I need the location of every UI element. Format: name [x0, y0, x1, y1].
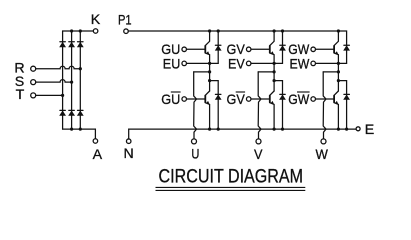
wire U upper diode branch — [217, 31, 219, 63]
diode D2 (rectifier upper) — [69, 42, 75, 47]
node N bus / U lower diode — [217, 128, 220, 131]
wire P bus (top rail) — [128, 31, 346, 63]
terminal GW — [311, 47, 316, 52]
node U midpoint / output branch — [208, 70, 211, 73]
wire V lower diode branch — [274, 81, 282, 130]
svg-text:N: N — [123, 146, 133, 162]
node P bus / U upper diode — [217, 29, 220, 32]
node W midpoint / output branch — [337, 70, 340, 73]
wire T input — [35, 94, 62, 96]
node V midpoint / output branch — [273, 70, 276, 73]
terminal GU — [182, 47, 187, 52]
wire U output drop — [194, 72, 197, 139]
svg-text:EU: EU — [163, 55, 181, 71]
svg-text:GW: GW — [288, 91, 310, 107]
node W midpoint at upper emitter — [337, 62, 340, 65]
terminal A — [93, 139, 98, 144]
transistor Q5 (V lower IGBT) — [251, 91, 274, 129]
diode D3 (rectifier upper) — [77, 42, 83, 47]
diode D11 (V lower freewheel) — [280, 94, 286, 99]
node T / leg1 — [61, 94, 64, 97]
transistor Q3 (W upper IGBT) — [315, 31, 338, 63]
wire W lower diode branch — [338, 81, 346, 130]
terminal GV-bar — [246, 97, 251, 102]
wire cathode rail to K — [63, 30, 94, 32]
wire W midpoint vertical — [337, 63, 339, 91]
svg-text:U: U — [191, 147, 199, 163]
transistor Q1 (U upper IGBT) — [186, 31, 209, 63]
diode D7 (U upper freewheel) — [215, 45, 221, 50]
terminal GW-bar — [311, 97, 316, 102]
diode D5 (rectifier lower) — [69, 110, 75, 115]
terminal U — [192, 139, 197, 144]
wire U midpoint / EU line — [186, 62, 218, 64]
node N bus / U lower emitter — [208, 128, 211, 131]
svg-text:GV: GV — [227, 91, 246, 107]
diode D1 (rectifier upper) — [60, 42, 66, 47]
transistor Q2 (V upper IGBT) — [251, 31, 274, 63]
node V midpoint at upper emitter — [273, 62, 276, 65]
terminal K — [93, 29, 98, 34]
terminal R — [31, 66, 36, 71]
svg-text:K: K — [91, 12, 101, 28]
wire V output drop — [258, 72, 261, 139]
terminal P1 — [124, 29, 129, 34]
wire S input — [35, 80, 71, 83]
wire R input — [35, 66, 80, 69]
node U midpoint / lower diode branch — [208, 79, 211, 82]
node P bus / W upper collector — [337, 29, 340, 32]
node P bus / V upper diode — [281, 29, 284, 32]
wire rectifier leg 2 — [71, 31, 73, 129]
terminal GU-bar — [182, 97, 187, 102]
wire anode rail to A — [63, 129, 96, 139]
terminal T — [31, 93, 36, 98]
terminal V — [256, 139, 261, 144]
wire W midpoint / EW line — [315, 62, 346, 64]
wire N/E bus (bottom rail) — [129, 129, 356, 139]
node cathode rail / leg3 — [79, 29, 82, 32]
wire U lower diode branch — [210, 81, 219, 130]
overline GV-bar — [236, 91, 245, 93]
svg-text:T: T — [16, 87, 25, 103]
svg-text:E: E — [365, 122, 374, 138]
wire U branch to output — [194, 71, 210, 73]
terminal S — [31, 80, 36, 85]
svg-text:EW: EW — [290, 55, 310, 71]
diode D4 (rectifier lower) — [60, 110, 66, 115]
node N bus / V lower diode — [281, 128, 284, 131]
svg-text:CIRCUIT DIAGRAM: CIRCUIT DIAGRAM — [159, 167, 304, 188]
svg-text:GU: GU — [161, 91, 180, 107]
svg-text:EV: EV — [228, 55, 245, 71]
wire V midpoint vertical — [273, 63, 275, 91]
title double underline — [156, 187, 306, 190]
node U midpoint at upper emitter — [208, 62, 211, 65]
node W midpoint / lower diode branch — [337, 79, 340, 82]
wire rectifier leg 1 — [62, 31, 64, 129]
wire V midpoint / EV line — [251, 62, 283, 64]
svg-text:A: A — [93, 147, 103, 163]
overline GW-bar — [297, 91, 310, 93]
terminal EU — [182, 61, 187, 66]
wire U midpoint vertical — [209, 63, 211, 91]
diode D9 (W upper freewheel) — [344, 45, 350, 50]
wire V branch to output — [258, 71, 274, 73]
overline GU-bar — [171, 91, 181, 93]
node V midpoint / lower diode branch — [273, 79, 276, 82]
terminal GV — [246, 47, 251, 52]
diode D8 (V upper freewheel) — [280, 45, 286, 50]
terminal N — [126, 139, 131, 144]
node cathode rail / leg2 — [70, 29, 73, 32]
transistor Q4 (U lower IGBT) — [186, 91, 209, 129]
terminal EW — [311, 61, 316, 66]
node anode rail / leg2 — [70, 128, 73, 131]
node R / leg3 — [79, 67, 82, 70]
transistor Q6 (W lower IGBT) — [315, 91, 338, 129]
node S / leg2 — [70, 81, 73, 84]
node N bus / W lower diode — [345, 128, 348, 131]
svg-text:V: V — [254, 147, 263, 163]
terminal EV — [246, 61, 251, 66]
node P bus / V upper collector — [273, 29, 276, 32]
terminal W — [321, 139, 326, 144]
wire rectifier leg 3 — [79, 31, 81, 129]
wire W output drop — [323, 72, 326, 139]
svg-text:P1: P1 — [118, 13, 132, 29]
svg-text:W: W — [316, 147, 329, 163]
wire V upper diode branch — [282, 31, 284, 63]
node N bus / W lower emitter — [337, 128, 340, 131]
diode D6 (rectifier lower) — [77, 110, 83, 115]
node N bus / V lower emitter — [273, 128, 276, 131]
terminal E — [356, 127, 360, 131]
diode D12 (W lower freewheel) — [344, 94, 350, 99]
wire W branch to output — [323, 71, 338, 73]
node anode rail / leg3 — [79, 128, 82, 131]
node P bus / U upper collector — [208, 29, 211, 32]
diode D10 (U lower freewheel) — [215, 94, 221, 99]
